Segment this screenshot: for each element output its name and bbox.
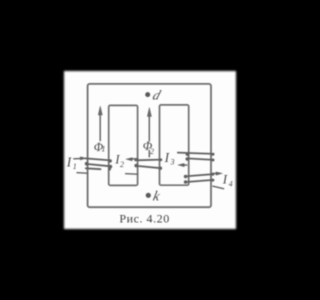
svg-text:3: 3 [170,158,175,167]
flux arrow PHI2 [147,108,151,157]
winding W4 end loops [184,173,215,184]
winding W1 end loops [85,159,112,170]
winding W2 end loops [134,158,162,169]
core outline (outer rectangle) [88,84,211,207]
winding W1 lower lead [77,172,87,175]
node k bullet [146,193,151,198]
svg-text:1: 1 [101,144,105,154]
svg-text:2: 2 [120,160,124,169]
svg-text:I: I [222,172,228,187]
right window [160,105,189,185]
winding W3 turns on right limb [178,153,214,160]
current arrow I4 [213,172,222,175]
paper background patch [64,71,236,229]
current arrow I3 [178,163,187,166]
svg-text:1: 1 [73,162,77,171]
winding W4 turns on right limb [185,174,214,182]
winding W2 turns on middle limb [135,160,161,169]
winding W1 turns on left limb [85,158,110,169]
svg-text:2: 2 [150,146,155,156]
svg-text:4: 4 [229,180,233,189]
current arrow I2 [126,158,138,161]
winding W4 lower lead [213,186,224,189]
current arrow I1 [74,157,87,160]
node d bullet [145,92,150,97]
winding W3 end loops [186,153,215,162]
flux arrow PHI1 [98,106,102,140]
winding W2 lower lead [126,173,138,176]
svg-text:Рис. 4.20: Рис. 4.20 [119,211,169,225]
left window [109,105,138,185]
